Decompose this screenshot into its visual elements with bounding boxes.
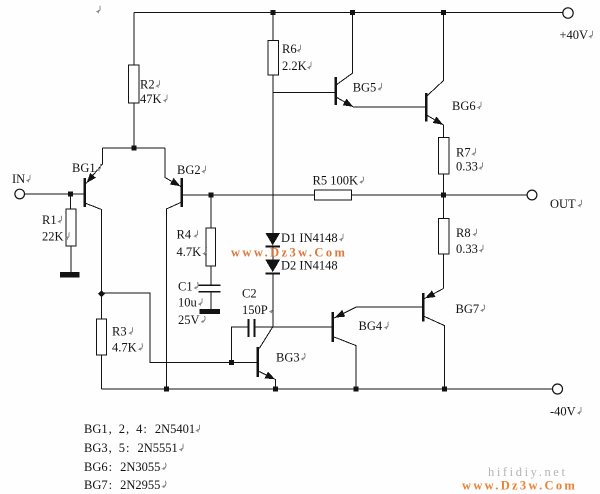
label net +40V: [560, 28, 593, 42]
label R1 refdes: [42, 213, 62, 227]
legend line BG3 5 2N5551: [84, 441, 183, 455]
label BG5 refdes: [353, 80, 382, 94]
svg-text:C1: C1: [178, 279, 193, 293]
wire D1 to D2: [272, 247, 274, 260]
node top rail R6: [271, 10, 276, 15]
resistor R4: [206, 228, 216, 266]
wire BG4 collector: [334, 337, 356, 389]
capacitor C2: [249, 319, 255, 337]
wire BG1 emitter lead: [86, 148, 102, 183]
label C1 rating 25V: [178, 313, 205, 327]
node R4 top / BG2 base: [208, 193, 213, 198]
svg-text:BG7: BG7: [456, 302, 480, 316]
wire R1 bottom lead: [70, 246, 72, 272]
wire BG2 emitter: [165, 148, 181, 187]
wire BG3 base lead: [232, 362, 257, 364]
ground bar below C1: [200, 309, 221, 314]
svg-text:+40V: +40V: [560, 28, 589, 42]
node BG1 collector / R3 junction: [98, 290, 105, 297]
transistor BG6: [425, 93, 443, 125]
capacitor C1: [199, 285, 221, 292]
wire C1 bottom lead: [210, 292, 212, 309]
transistor BG4: [332, 310, 346, 342]
wire top rail +40V: [134, 12, 563, 14]
legend line BG1 2 4 2N5401: [84, 422, 200, 436]
wire BG6 collector: [427, 13, 443, 96]
legend line BG6 2N3055: [84, 460, 166, 474]
wire R4 to C1: [210, 266, 212, 285]
svg-text:R1: R1: [42, 213, 57, 227]
label R8 refdes: [456, 226, 477, 240]
resistor R2: [129, 65, 140, 103]
wire R4 top lead: [210, 195, 212, 228]
label net IN: [12, 172, 30, 186]
label net -40V: [550, 404, 581, 418]
stray paragraph mark top left: [96, 6, 100, 14]
label BG2 refdes: [177, 163, 206, 177]
svg-text:47K: 47K: [140, 92, 162, 106]
wire C2 to BG4 base: [255, 326, 331, 328]
wire BG7 emitter diagonal: [424, 289, 443, 299]
svg-text:R5 100K: R5 100K: [313, 174, 359, 188]
legend line BG7 2N2955: [84, 478, 166, 492]
svg-text:BG1,2,4:2N5401: BG1,2,4:2N5401: [84, 422, 195, 436]
resistor R6: [268, 41, 279, 76]
wire R6 bottom to D1: [272, 75, 274, 234]
diode D1: [265, 233, 280, 247]
watermark center www.Dz3w.Com: [231, 246, 347, 260]
svg-text:hifidiy.net: hifidiy.net: [488, 465, 568, 479]
label BG7 refdes: [456, 302, 485, 316]
label C2 value 150P: [242, 303, 273, 317]
label C1 value 10u: [178, 296, 202, 310]
wire R2 top lead: [133, 13, 135, 66]
transistor BG1: [84, 173, 96, 207]
node BG3 base / C2 junction: [229, 360, 234, 365]
node top rail BG5 collector: [350, 10, 355, 15]
svg-text:-40V: -40V: [550, 404, 576, 418]
svg-text:R2: R2: [140, 78, 155, 92]
svg-text:0.33: 0.33: [456, 242, 478, 256]
power terminal -40V: [553, 384, 563, 394]
node top rail BG6 collector: [441, 10, 446, 15]
svg-text:R4: R4: [177, 228, 192, 242]
svg-text:BG7:2N2955: BG7:2N2955: [84, 478, 160, 492]
wire R2 bottom lead: [133, 103, 135, 148]
label R4 refdes: [177, 228, 198, 242]
label R2 refdes: [140, 78, 160, 92]
wire R3 top lead: [101, 293, 103, 319]
wire BG1 collector lead: [86, 204, 101, 294]
label D2 refdes and value IN4148: [281, 259, 338, 273]
label BG1 refdes: [72, 161, 101, 175]
resistor R1: [66, 209, 76, 246]
svg-text:BG1: BG1: [72, 161, 96, 175]
transistor BG5: [334, 77, 353, 107]
label R7 refdes: [456, 146, 476, 160]
svg-text:25V: 25V: [178, 313, 200, 327]
label D1 refdes and value IN4148: [281, 231, 343, 245]
label R7 value 0.33: [456, 160, 483, 174]
label BG3 refdes: [276, 350, 305, 364]
wire BG5 collector: [337, 13, 353, 85]
svg-text:BG5: BG5: [353, 80, 377, 94]
svg-text:150P: 150P: [242, 303, 268, 317]
transistor BG7: [422, 290, 436, 321]
wire R8 top lead: [443, 195, 445, 218]
svg-text:BG3: BG3: [276, 350, 300, 364]
svg-text:www.Dz3w.Com: www.Dz3w.Com: [462, 478, 577, 492]
svg-text:BG3,5:2N5551: BG3,5:2N5551: [84, 441, 178, 455]
wire emitter tee: [103, 147, 166, 149]
label net OUT: [550, 197, 582, 211]
node rail BG3 emitter: [273, 386, 278, 391]
diode D2: [265, 260, 280, 274]
resistor R8: [438, 218, 449, 254]
label R3 refdes: [112, 325, 133, 339]
resistor R5: [315, 190, 352, 200]
svg-text:BG2: BG2: [177, 163, 201, 177]
wire mid rail BG2 base to R5: [183, 194, 315, 196]
wire BG5 base: [273, 92, 334, 94]
svg-text:BG6:2N3055: BG6:2N3055: [84, 460, 160, 474]
label BG4 refdes: [359, 319, 389, 333]
label R2 value 47K: [140, 92, 167, 106]
wire bottom rail -40V: [102, 388, 553, 390]
wire R7 bottom lead: [443, 174, 445, 195]
transistor BG3: [257, 347, 276, 379]
wire D2 to VAS node: [272, 274, 274, 327]
wire BG7 collector: [424, 317, 444, 390]
resistor R7: [438, 138, 449, 175]
node output junction: [441, 193, 446, 198]
svg-text:R7: R7: [456, 146, 471, 160]
svg-text:IN: IN: [12, 172, 25, 186]
resistor R3: [97, 319, 107, 355]
svg-text:D1 IN4148: D1 IN4148: [281, 231, 338, 245]
svg-text:22K: 22K: [42, 230, 64, 244]
svg-text:4.7K: 4.7K: [177, 245, 202, 259]
label R4 value 4.7K: [177, 245, 207, 259]
label R6 value 2.2K: [282, 59, 311, 73]
wire C2 left lead: [232, 327, 248, 363]
watermark bottom www.Dz3w.Com: [462, 478, 577, 492]
svg-text:R3: R3: [112, 325, 127, 339]
node R2/emitters junction: [132, 146, 137, 151]
svg-text:2.2K: 2.2K: [282, 59, 307, 73]
wire R5 to OUT: [352, 194, 527, 196]
svg-text:C2: C2: [242, 287, 257, 301]
svg-text:www.Dz3w.Com: www.Dz3w.Com: [231, 246, 347, 260]
wire R6 top lead: [272, 13, 274, 41]
svg-text:4.7K: 4.7K: [112, 341, 137, 355]
label BG6 refdes: [452, 99, 481, 113]
transistor BG2: [170, 178, 183, 207]
svg-text:0.33: 0.33: [456, 160, 478, 174]
svg-text:BG4: BG4: [359, 319, 383, 333]
node rail BG7 collector: [442, 386, 447, 391]
wire R8 to BG7 emitter: [443, 254, 445, 289]
svg-text:10u: 10u: [178, 296, 198, 310]
wire jog to BG3 base: [102, 293, 232, 363]
input terminal IN: [15, 189, 25, 199]
svg-text:OUT: OUT: [550, 197, 576, 211]
power terminal +40V: [563, 8, 573, 18]
watermark hifidiy.net: [488, 465, 568, 479]
node rail BG4 collector: [353, 386, 358, 391]
label R1 value 22K: [42, 230, 69, 244]
label C1 refdes: [178, 279, 198, 293]
wire BG3 collector: [259, 327, 273, 349]
wire IN to BG1 base: [25, 193, 84, 195]
label R5 refdes and value 100K: [313, 174, 364, 188]
label C2 refdes: [242, 287, 257, 301]
label R3 value 4.7K: [112, 341, 142, 355]
wire BG2 collector to rail: [166, 203, 180, 390]
wire BG4 emitter to BG7 base: [334, 307, 422, 318]
output terminal OUT: [527, 190, 537, 200]
wire R1 top lead: [70, 194, 72, 209]
wire BG6 emitter to R7: [427, 116, 443, 138]
svg-text:D2 IN4148: D2 IN4148: [281, 259, 338, 273]
label R8 value 0.33: [456, 242, 483, 256]
wire BG3 emitter: [259, 372, 275, 390]
ground bar below R1: [60, 272, 80, 278]
svg-text:R8: R8: [456, 226, 471, 240]
wire R3 bottom lead: [101, 355, 103, 389]
svg-text:BG6: BG6: [452, 99, 476, 113]
node R1 top: [68, 192, 73, 197]
svg-text:R6: R6: [282, 42, 297, 56]
wire BG5 emitter to BG6 base: [337, 98, 425, 108]
node rail BG2 collector: [164, 387, 169, 392]
label R6 refdes: [282, 42, 301, 56]
